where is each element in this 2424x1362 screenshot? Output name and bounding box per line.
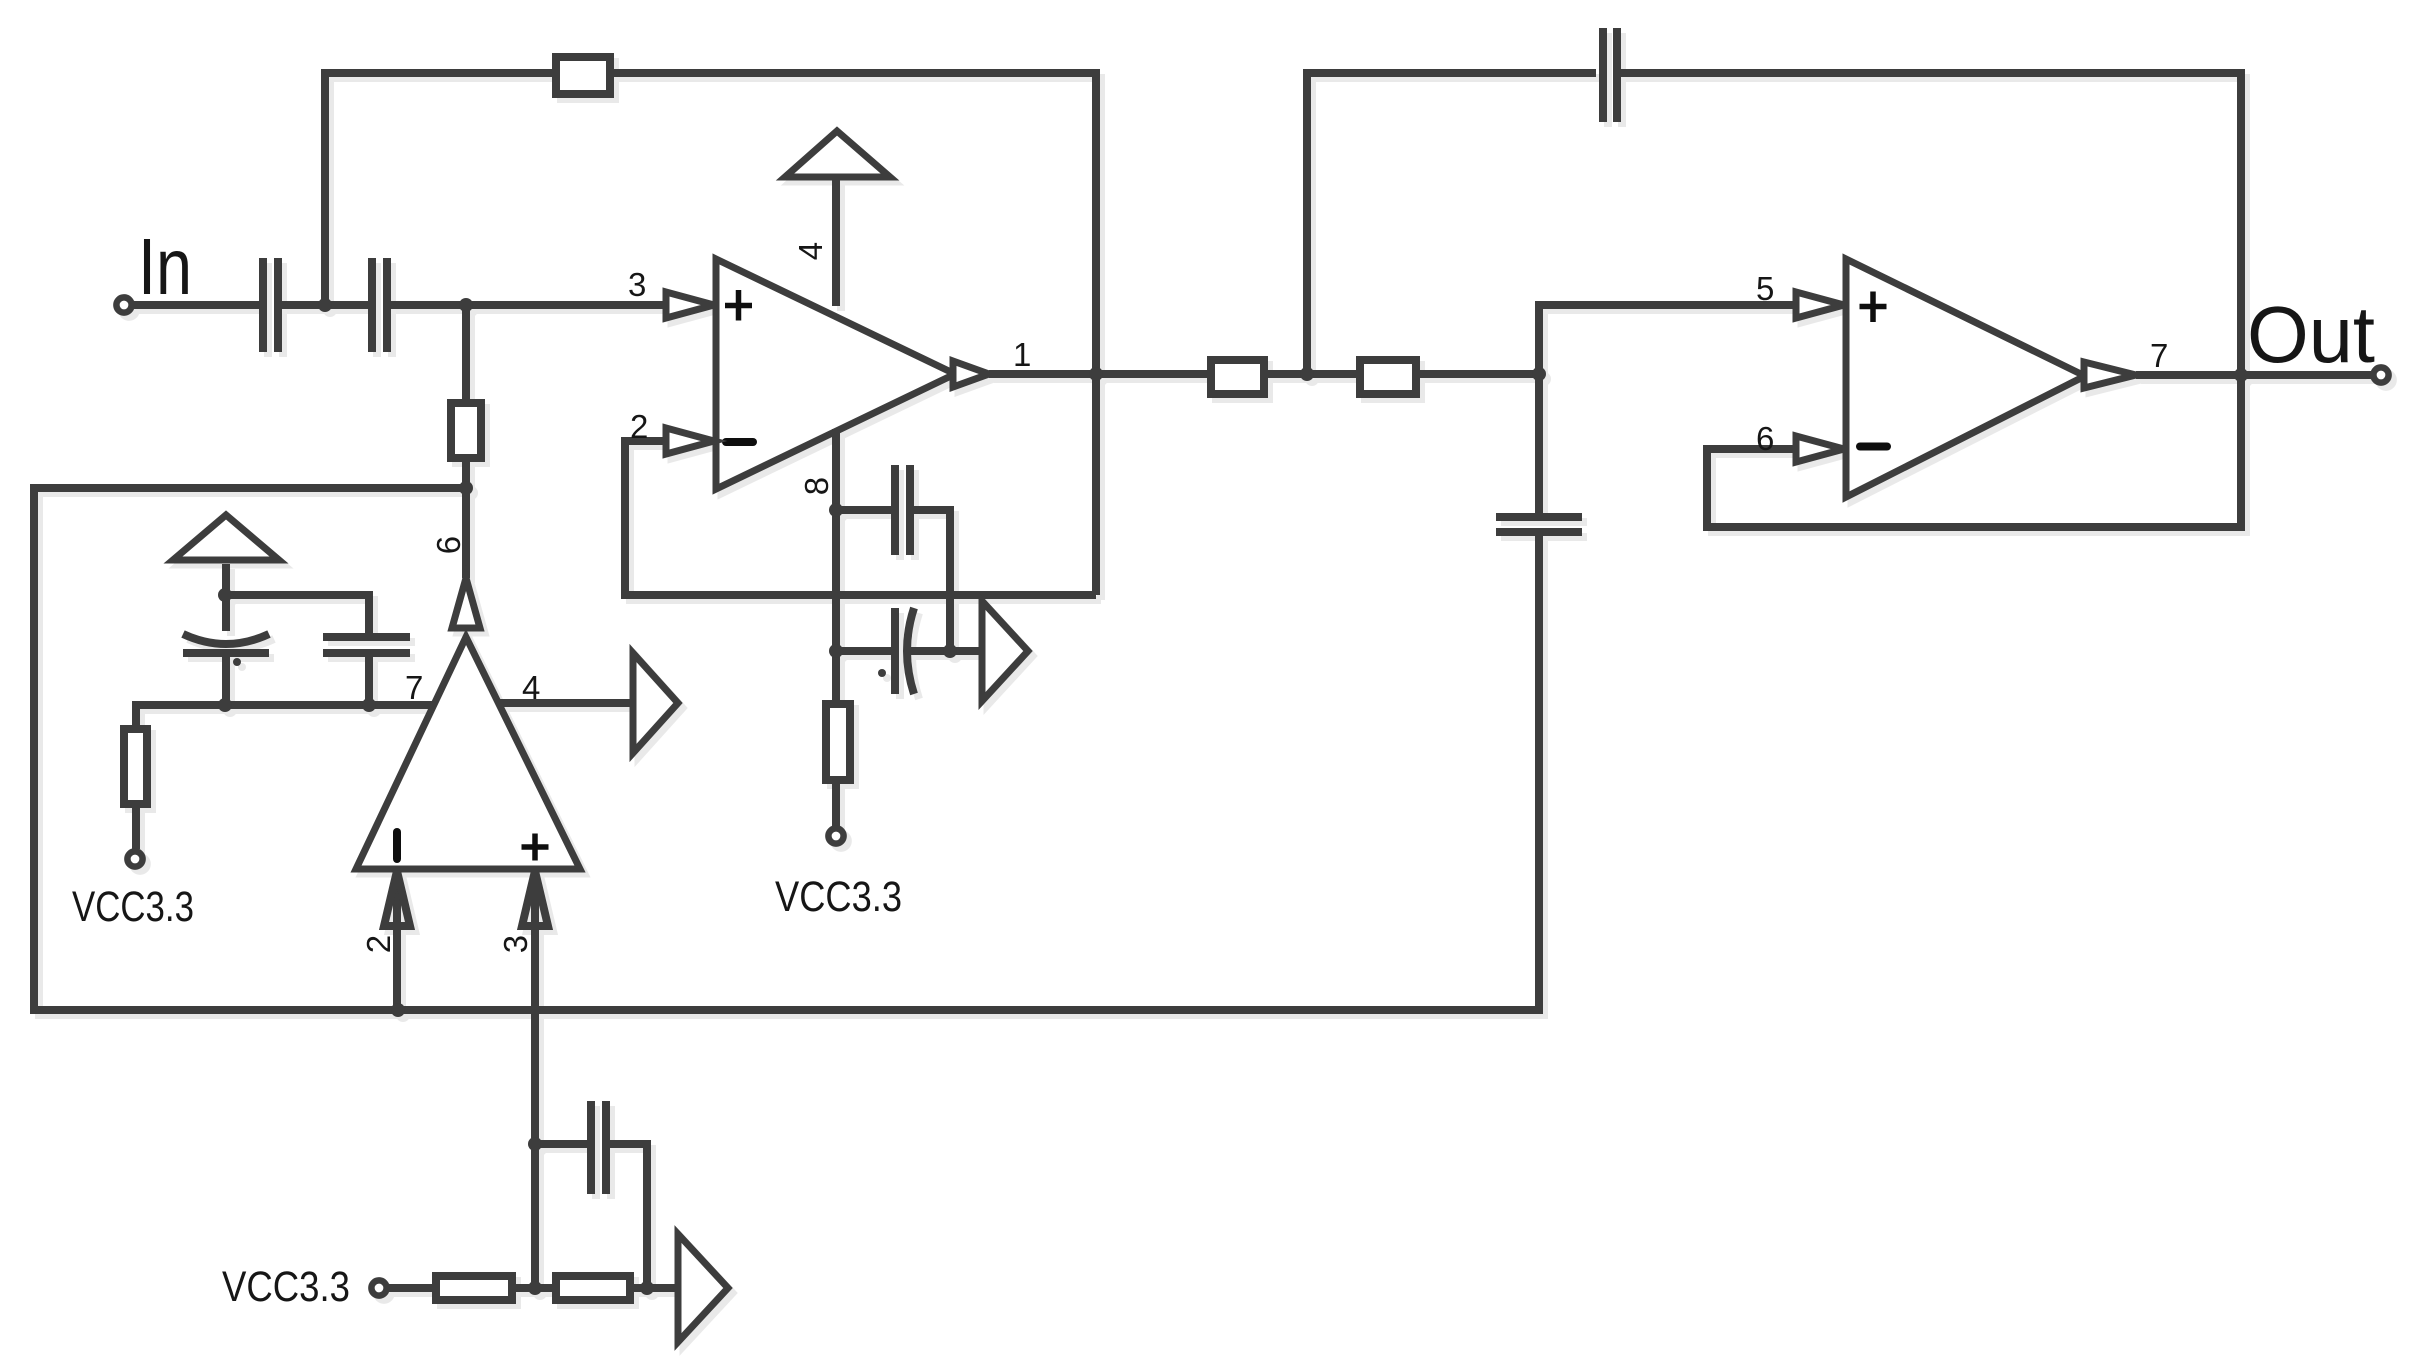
polarity dot C6 [878, 669, 886, 677]
wire terminal to R8 [389, 1284, 436, 1292]
node E junction [829, 644, 843, 658]
op-amp U2 [1846, 259, 2085, 497]
terminal VCC3.3 left [127, 851, 142, 866]
resistor R4 [1360, 360, 1416, 394]
minus sign U3 [393, 832, 401, 859]
capacitor C1 [259, 258, 267, 352]
svg-text:VCC3.3: VCC3.3 [775, 873, 902, 921]
pin 2 input arrow U1 [666, 428, 714, 454]
capacitor C7 [1599, 28, 1607, 122]
capacitor C4 [323, 633, 410, 641]
pin 4 wire [832, 180, 840, 306]
minus sign U2 [1860, 443, 1887, 451]
node G junction [1089, 367, 1103, 381]
wire node M to C4 corner [225, 595, 369, 633]
capacitor C6 curved plate [907, 608, 914, 694]
svg-text:VCC3.3: VCC3.3 [222, 1263, 350, 1311]
wire R6 to terminal [132, 804, 140, 849]
node K junction [218, 698, 232, 712]
wire to capacitor C5 [836, 506, 892, 514]
pin 2 wire down [393, 869, 401, 1010]
terminal VCC3.3 bottom [371, 1280, 386, 1295]
terminal Out [2373, 367, 2388, 382]
pin 2 input arrow U3 [384, 871, 410, 926]
node L junction [362, 698, 376, 712]
node H junction [1300, 367, 1314, 381]
power arrow A1 [982, 601, 1028, 701]
op-amp U1 [716, 259, 955, 489]
svg-text:8: 8 [798, 477, 835, 495]
pin 4 wire U3 [500, 699, 633, 707]
wire node I up to pin5 [1539, 305, 1796, 374]
wire resistor to right corner [614, 73, 1096, 595]
wire node O to C9 [535, 1140, 588, 1148]
capacitor C2 [368, 258, 376, 352]
svg-text:VCC3.3: VCC3.3 [72, 883, 194, 931]
svg-text:6: 6 [1756, 420, 1774, 457]
output arrow U2 pin7 [2084, 362, 2136, 388]
pin 3 wire down [531, 869, 539, 1288]
resistor R6 [124, 729, 147, 804]
capacitor C8 [1496, 513, 1582, 521]
node A junction [318, 298, 332, 312]
wire C5 to riser [914, 510, 950, 651]
power arrow A2 [633, 653, 678, 753]
svg-text:3: 3 [497, 935, 534, 953]
wire C7 to right corner [1621, 73, 2241, 527]
node B junction [459, 298, 473, 312]
minus sign U1 [726, 438, 753, 446]
node F junction [943, 644, 957, 658]
wire C3 to pin7 wire [222, 657, 230, 705]
output rail U1 [989, 370, 1211, 378]
node J junction [2234, 368, 2248, 382]
resistor R1 top feedback [556, 57, 610, 94]
output arrow U1 pin1 [953, 361, 989, 387]
capacitor C3 curved plate [183, 634, 269, 644]
wire R3 to R4 [1264, 370, 1360, 378]
wire R2 to node C [462, 458, 470, 492]
wire P2 down [222, 564, 230, 631]
wire to capacitor C6 [836, 647, 892, 655]
node C junction [459, 481, 473, 495]
svg-text:3: 3 [628, 266, 646, 303]
wire feedback riser left [325, 73, 552, 305]
svg-text:In: In [138, 222, 192, 311]
resistor R2 [451, 403, 481, 458]
plus sign U1 [725, 303, 752, 309]
wire C8 down to bus [1535, 536, 1543, 1010]
pin 3 input arrow U3 [522, 871, 548, 926]
svg-text:4: 4 [792, 242, 829, 260]
wire node I down to C8 [1535, 374, 1543, 513]
wire node B down to resistor R2 [462, 305, 470, 403]
pin 8 wire [832, 429, 840, 704]
feedback riser FB2 [1307, 73, 1596, 374]
svg-text:Out: Out [2247, 290, 2375, 379]
svg-text:2: 2 [630, 408, 648, 445]
wire C1 to C2 [282, 301, 368, 309]
wire R9 to power arrow [630, 1284, 678, 1292]
node O junction [528, 1137, 542, 1151]
wire C4 to pin7 wire [365, 657, 373, 705]
bottom bus [34, 488, 1539, 1010]
resistor R5 pullup [826, 704, 850, 780]
resistor R9 [556, 1276, 630, 1300]
wire C2 to op-amp U1 pin3 [391, 301, 668, 309]
pin 3 input arrow U1 [666, 292, 714, 318]
resistor R8 [436, 1276, 512, 1300]
svg-text:7: 7 [405, 669, 423, 706]
power arrow A3 [678, 1234, 728, 1342]
node I junction [1532, 367, 1546, 381]
svg-text:7: 7 [2150, 337, 2168, 374]
wire R5 to terminal [832, 780, 840, 826]
wire R8 to R9 [512, 1284, 556, 1292]
wire C6 to power arrow [910, 647, 982, 655]
node P junction [528, 1281, 542, 1295]
resistor R3 [1211, 360, 1264, 394]
input terminal In [116, 297, 131, 312]
plus sign U2 [1860, 304, 1887, 310]
svg-text:6: 6 [430, 536, 467, 554]
power symbol P1 [785, 131, 890, 177]
wire pin2 feedback loop [625, 441, 1096, 595]
capacitor C5 [891, 465, 899, 555]
capacitor C9 [587, 1101, 595, 1194]
wire C9 to corner down [610, 1144, 647, 1288]
node N junction [391, 1003, 405, 1017]
power symbol P2 [173, 515, 279, 560]
svg-text:4: 4 [522, 669, 540, 706]
plus sign U3 [522, 844, 549, 850]
capacitor C6 polarized plate [891, 608, 899, 694]
terminal VCC3.3 pin8 [828, 828, 843, 843]
wire In to C1 [134, 301, 259, 309]
pin 5 input arrow U2 [1796, 292, 1844, 318]
pin 6 input arrow U2 [1796, 436, 1844, 462]
node M junction [218, 588, 232, 602]
pin 7 wire [136, 705, 433, 729]
capacitor C3 plate [183, 649, 269, 657]
wire R4 to node I [1416, 370, 1539, 378]
svg-text:5: 5 [1756, 270, 1774, 307]
output arrow U3 pin6 [452, 578, 480, 628]
polarity dot C3 [233, 658, 241, 666]
node Q junction [640, 1281, 654, 1295]
output wire Out [2136, 371, 2371, 379]
node D junction pin8 [829, 503, 843, 517]
svg-text:2: 2 [360, 935, 397, 953]
wire node C to pin6 arrow [462, 488, 470, 578]
svg-text:1: 1 [1013, 336, 1031, 373]
op-amp U3 [356, 637, 580, 869]
